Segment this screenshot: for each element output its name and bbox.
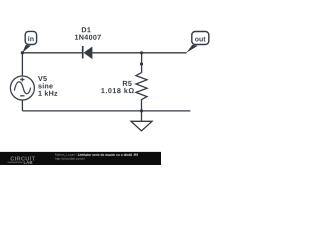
svg-text:out: out [195, 36, 207, 43]
diode D1 [83, 46, 93, 59]
ground [131, 111, 152, 131]
flag label out [186, 32, 209, 53]
wire top right segment (D1 anode to out node) [92, 52, 186, 54]
svg-text:1 kHz: 1 kHz [38, 89, 58, 98]
wire top left segment (in node to D1 cathode) [22, 52, 82, 54]
wire bottom rail [22, 110, 190, 112]
wire V5 top stub [21, 53, 23, 76]
resistor R5 [136, 73, 147, 111]
node R5 top terminal [140, 62, 143, 65]
svg-text:LAB: LAB [24, 160, 33, 165]
voltage source V5 [10, 76, 34, 100]
svg-text:1.018 kΩ: 1.018 kΩ [101, 86, 135, 95]
node ground junction [140, 109, 143, 112]
svg-text:http://circuitlab.com/c/: http://circuitlab.com/c/ [55, 157, 85, 161]
wire V5 bottom stub [21, 100, 23, 111]
wire R5 top stub [141, 53, 143, 73]
svg-text:in: in [28, 36, 34, 43]
flag label in [22, 31, 36, 52]
node in junction [21, 51, 24, 54]
node junction top right [140, 51, 143, 54]
watermark bar [0, 152, 161, 165]
watermark logo CIRCUIT LAB [8, 156, 36, 165]
svg-text:1N4007: 1N4007 [75, 33, 102, 42]
